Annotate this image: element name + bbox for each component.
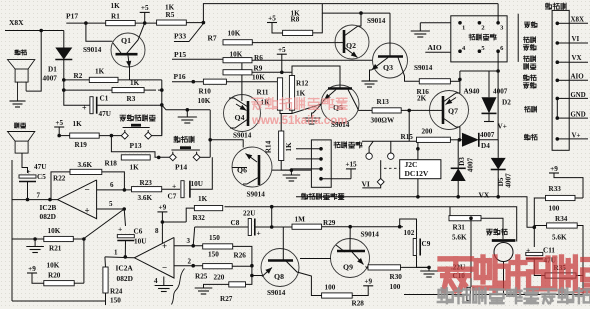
wire C8 left down to pin3	[193, 227, 195, 246]
svg-text:Q8: Q8	[274, 272, 284, 281]
wire R1 to +5	[135, 22, 156, 24]
svg-text:5.6K: 5.6K	[452, 234, 467, 242]
svg-text:R2: R2	[74, 72, 83, 80]
wire C10 column	[470, 218, 472, 287]
svg-text:R31: R31	[453, 224, 466, 232]
svg-text:S9014: S9014	[367, 17, 386, 25]
power +5 above R9	[281, 54, 283, 72]
svg-text:www.51kaifa.com: www.51kaifa.com	[251, 115, 347, 127]
wire R19 junction down	[111, 136, 169, 158]
svg-text:R26: R26	[234, 252, 247, 260]
svg-text:C8: C8	[231, 219, 240, 227]
svg-text:4007: 4007	[505, 173, 513, 188]
resistor R33	[546, 195, 576, 200]
resistor R32	[194, 206, 222, 211]
svg-text:10U: 10U	[134, 238, 147, 246]
IC2A pin2 wire	[174, 265, 203, 267]
squiggle adjust mark	[172, 269, 185, 305]
svg-text:10U: 10U	[191, 180, 204, 188]
resistor R29 1M	[292, 224, 322, 229]
op-amp IC2B 082D	[58, 180, 97, 219]
switch pin 1	[458, 21, 462, 25]
wire pin5 diagonal to R20 net	[84, 209, 124, 239]
wire C7 right up	[190, 157, 212, 189]
wire mic to C5	[22, 153, 28, 173]
wire top bus drop to Q3 collector	[322, 12, 390, 14]
switch pin 4	[458, 49, 462, 53]
svg-text:R21: R21	[49, 245, 62, 253]
svg-text:D4: D4	[481, 142, 490, 150]
connector pin AIO	[556, 79, 560, 83]
svg-text:C5: C5	[37, 173, 46, 181]
connector pin V+	[556, 137, 560, 141]
label shipin xinhao	[524, 37, 530, 43]
svg-text:R22: R22	[53, 175, 66, 183]
svg-text:1K: 1K	[130, 79, 140, 87]
diode D2	[488, 71, 490, 97]
wire R9 right to +5 node	[252, 71, 292, 73]
resistor R11 vertical	[277, 78, 282, 110]
svg-text:10K: 10K	[48, 227, 61, 235]
wire Q9 emitter to R30	[367, 267, 369, 268]
svg-text:6: 6	[110, 181, 114, 189]
svg-text:+: +	[162, 241, 167, 251]
wire base Q8	[252, 275, 263, 277]
transistor Q1 S9014	[111, 33, 145, 67]
switch pin 5	[478, 49, 482, 53]
wire R30 right	[401, 266, 430, 268]
svg-text:3.6K: 3.6K	[78, 161, 93, 169]
svg-text:VI: VI	[362, 180, 370, 189]
svg-text:082D: 082D	[117, 274, 133, 283]
power +5 at R19	[54, 126, 64, 128]
svg-text:R32: R32	[193, 214, 206, 222]
op-amp IC2A 082D	[134, 237, 174, 278]
svg-text:D3: D3	[458, 157, 466, 166]
wire linking GND pins	[556, 98, 558, 118]
wire P15	[172, 58, 242, 60]
svg-text:X8X: X8X	[571, 16, 585, 24]
svg-text:+9: +9	[550, 165, 558, 173]
ground below Q3 emitter	[362, 80, 378, 82]
svg-text:R20: R20	[48, 272, 61, 280]
svg-text:X8X: X8X	[9, 18, 24, 27]
svg-text:1K: 1K	[95, 68, 105, 76]
IC2A pin4 ground	[163, 277, 165, 286]
resistor R31	[449, 216, 481, 221]
resistor R16	[419, 79, 450, 84]
svg-text:2: 2	[481, 25, 484, 32]
diode D1	[63, 31, 65, 49]
svg-text:Q3: Q3	[383, 63, 393, 72]
microphone MIC1 speaker symbol	[8, 132, 35, 142]
switch pin 2	[478, 21, 482, 25]
svg-text:10K: 10K	[228, 30, 241, 38]
bottom wire right section	[404, 294, 466, 296]
resistor R6 10K	[223, 58, 252, 63]
svg-text:4007: 4007	[493, 88, 508, 96]
svg-text:R18: R18	[105, 160, 118, 168]
svg-text:3: 3	[187, 237, 191, 245]
svg-text:S9014: S9014	[361, 231, 380, 239]
wire R10 right to R11 top	[226, 78, 280, 82]
wire R2 net	[64, 79, 90, 81]
resistor R8	[283, 30, 313, 35]
wire X8X horizontal	[5, 30, 64, 32]
wire R25 right	[232, 265, 252, 267]
wire P14 right to vertical	[200, 156, 210, 158]
wire R34 ends	[534, 225, 546, 227]
wire C11 bottom to R35	[534, 259, 545, 276]
wire R3 right dashed	[144, 89, 156, 91]
svg-text:P14: P14	[175, 163, 187, 172]
relay contact wire	[362, 140, 417, 142]
connector pin VX	[556, 60, 560, 64]
svg-text:R11: R11	[257, 89, 269, 97]
svg-text:C6: C6	[134, 228, 143, 236]
wire C1 right	[97, 104, 162, 106]
svg-text:S9014: S9014	[414, 64, 433, 72]
feedback switch box	[451, 16, 507, 62]
svg-text:A940: A940	[464, 88, 480, 96]
resistor R21	[44, 236, 74, 241]
connector pin VI	[556, 41, 560, 45]
svg-text:10K: 10K	[230, 51, 243, 59]
microphone MIC2 label	[487, 229, 493, 235]
wire switch pin3 to top bus	[497, 4, 499, 23]
wire R14 bottom	[281, 161, 291, 171]
svg-text:R24: R24	[110, 288, 123, 296]
svg-text:V+: V+	[498, 123, 507, 131]
svg-text:22U: 22U	[243, 210, 256, 218]
svg-text:+: +	[257, 229, 261, 238]
svg-text:1K: 1K	[111, 2, 121, 10]
resistor R3	[112, 88, 144, 93]
svg-text:R14: R14	[265, 140, 273, 153]
resistor R5	[157, 20, 187, 25]
svg-text:10K: 10K	[198, 97, 211, 105]
wire C8 right	[255, 226, 292, 228]
resistor R9 10K	[223, 70, 252, 75]
svg-text:300ΩW: 300ΩW	[371, 117, 396, 125]
IC2A pin3 wire	[174, 245, 203, 247]
wire +5 to R8	[272, 23, 283, 34]
wire R18 right junction	[157, 156, 161, 160]
IC2A output pin1 wire	[105, 256, 134, 259]
resistor R7 10K	[223, 40, 252, 45]
node V+ stub	[484, 121, 494, 123]
resistor R34	[547, 223, 578, 228]
wire +9 to pin8	[161, 222, 163, 243]
svg-text:8: 8	[155, 227, 159, 235]
wire R16 right	[450, 80, 460, 82]
svg-text:100: 100	[325, 284, 336, 292]
power +15	[346, 168, 356, 170]
resistor R25	[203, 264, 233, 269]
resistor R35	[545, 273, 576, 278]
relay contact B	[386, 152, 395, 161]
svg-text:4007: 4007	[467, 157, 475, 172]
switch pin 6	[496, 49, 500, 53]
switch pin 3	[496, 21, 500, 25]
svg-text:R8: R8	[291, 16, 300, 24]
diode D3	[457, 140, 459, 169]
svg-text:R27: R27	[220, 295, 233, 303]
transistor Q4 S9014	[224, 95, 261, 132]
svg-text:+5: +5	[55, 119, 63, 127]
connector pin GND2	[556, 116, 560, 120]
svg-text:47U: 47U	[99, 110, 112, 118]
svg-text:GND: GND	[571, 112, 586, 119]
svg-text:IC2B: IC2B	[40, 203, 57, 212]
wire R3 net left	[64, 80, 112, 90]
wire R13 junction down to relay wire	[408, 110, 410, 141]
wire P17	[66, 22, 105, 24]
svg-text:R1: R1	[111, 13, 120, 21]
svg-text:AIO: AIO	[571, 73, 585, 81]
microphone MIC2 electret	[492, 239, 516, 242]
svg-text:+9: +9	[159, 204, 167, 212]
wire P17 to Q1 base	[86, 23, 113, 41]
transistor Q3 S9014	[373, 43, 408, 78]
svg-text:100: 100	[390, 283, 401, 291]
resistor R1	[106, 21, 136, 26]
connector to host box	[552, 10, 569, 150]
pushbutton P13	[123, 127, 150, 129]
wire R12 top	[291, 72, 293, 75]
svg-text:4007: 4007	[480, 131, 495, 139]
label dixian	[525, 106, 531, 112]
resistor R28	[322, 293, 353, 298]
switch label fankui kaiguan	[469, 34, 475, 40]
svg-text:D2: D2	[502, 99, 511, 107]
svg-text:2K: 2K	[417, 95, 427, 103]
label xinhao	[525, 22, 530, 28]
wire R33 ends	[575, 197, 583, 199]
wire switch pin6 down	[497, 51, 499, 140]
resistor R23	[132, 187, 162, 192]
top bus wire	[203, 4, 498, 23]
power +9 at IC2A pin8	[157, 211, 167, 213]
svg-text:−: −	[85, 185, 90, 195]
power +9 right column	[549, 172, 559, 174]
svg-text:150: 150	[110, 297, 121, 305]
resistor R24 vertical	[103, 267, 108, 293]
wire R26 R25 R27 right vertical	[233, 246, 252, 284]
svg-text:P15: P15	[174, 50, 186, 59]
svg-text:R25: R25	[195, 273, 208, 281]
svg-text:082D: 082D	[40, 212, 56, 221]
resistor R19	[70, 133, 100, 138]
wire R8 right to top bus	[313, 4, 323, 33]
junction on X8X wire	[39, 29, 43, 33]
video input label	[334, 142, 340, 148]
power +9 at R28	[363, 285, 373, 287]
label zhudong genzong jian	[120, 115, 126, 121]
svg-text:P17: P17	[66, 12, 78, 21]
wire mic bottom	[503, 262, 505, 295]
label yinpin xinhao	[523, 75, 529, 81]
svg-text:4007: 4007	[43, 75, 58, 83]
svg-text:S9014: S9014	[83, 46, 102, 54]
svg-text:C11: C11	[543, 247, 555, 255]
wire R2 right	[118, 79, 162, 81]
label jie shipin xianshiqi	[301, 193, 307, 199]
pushbutton P14	[171, 149, 200, 151]
resistor R10	[203, 79, 226, 84]
transistor Q8 S9014	[261, 249, 299, 287]
svg-text:150: 150	[209, 234, 220, 242]
op-amp IC2B pin7 wire	[12, 199, 58, 201]
speaker LS1 label	[15, 50, 20, 55]
wire pin6 net left	[460, 70, 498, 72]
svg-text:S9014: S9014	[267, 289, 286, 297]
svg-text:5.6K: 5.6K	[552, 234, 567, 242]
svg-text:100: 100	[549, 205, 560, 213]
svg-text:R23: R23	[140, 179, 153, 187]
capacitor C9 102	[400, 219, 417, 239]
relay pole VI	[380, 160, 382, 178]
capacitor C10 .22U	[467, 287, 470, 300]
bus wire 2	[225, 207, 517, 242]
wire Q4 Q6 link	[210, 140, 243, 148]
resistor R14 vertical	[279, 131, 284, 161]
wire R32 feed	[186, 208, 194, 222]
svg-text:+: +	[172, 182, 176, 191]
svg-text:R9: R9	[254, 65, 263, 73]
wire P33	[174, 24, 203, 42]
svg-text:D1: D1	[48, 66, 57, 74]
wire R7 to Q2 base	[252, 42, 335, 44]
svg-text:200: 200	[422, 128, 433, 136]
ground mid-left	[186, 110, 188, 117]
svg-text:1M: 1M	[295, 216, 306, 224]
wire R19 right	[99, 135, 121, 137]
svg-text:C1: C1	[100, 95, 109, 103]
svg-text:V+: V+	[572, 131, 581, 139]
svg-text:GND: GND	[571, 92, 586, 99]
wire R11 bottom to R14 top	[280, 114, 282, 132]
transistor Q7 A940	[430, 91, 469, 130]
svg-text:+: +	[85, 206, 90, 216]
svg-text:R28: R28	[352, 300, 365, 308]
svg-text:VX: VX	[572, 54, 582, 62]
video input pins	[319, 147, 323, 151]
svg-text:IC2A: IC2A	[116, 264, 134, 273]
ground at R21	[34, 239, 36, 247]
resistor R27	[229, 282, 246, 287]
left vertical rail	[11, 160, 13, 301]
svg-text:P16: P16	[174, 72, 186, 81]
capacitor C1 47U	[90, 97, 93, 114]
wire R15 right to diode node	[450, 139, 462, 141]
wire bus2 to R31	[449, 207, 451, 219]
svg-text:+5: +5	[268, 14, 276, 22]
wire R11 R12 bottoms to Q5 base	[280, 110, 292, 113]
connector header jie zhu ji	[545, 3, 551, 9]
ground top middle	[419, 23, 421, 31]
relay contact A	[365, 152, 374, 161]
wire +5 to R19	[59, 135, 69, 137]
resistor R26	[203, 244, 233, 249]
wire to speaker	[26, 31, 41, 92]
IC2B in- wire pin6	[97, 189, 132, 191]
resistor R20	[44, 281, 74, 286]
svg-text:Q6: Q6	[237, 166, 247, 175]
pink watermark 51kaifa	[252, 98, 263, 109]
svg-text:1: 1	[462, 25, 465, 32]
svg-text:+: +	[118, 225, 122, 234]
svg-text:3.6K: 3.6K	[138, 194, 153, 202]
svg-text:DC12V: DC12V	[405, 169, 429, 178]
svg-text:R15: R15	[401, 133, 414, 141]
relay dashed link	[384, 167, 400, 169]
speaker LS1	[25, 82, 27, 91]
resistor R18	[121, 155, 150, 160]
svg-text:+9: +9	[28, 265, 36, 273]
ground at Q6 net	[290, 170, 292, 175]
wire C5 bottom to op-amp	[27, 182, 29, 200]
svg-text:1: 1	[114, 249, 118, 257]
svg-text:2: 2	[188, 258, 192, 266]
wire P13 right to bus	[152, 105, 162, 136]
microphone MIC1 label	[15, 123, 19, 128]
resistor R2	[89, 77, 118, 82]
wire P16	[172, 81, 203, 83]
svg-text:+5: +5	[278, 46, 286, 54]
svg-text:S9014: S9014	[247, 191, 266, 199]
ground below Q5	[312, 113, 313, 118]
svg-text:VI: VI	[572, 35, 580, 43]
label dianyuan	[524, 134, 530, 140]
video input connector box	[311, 140, 331, 187]
wire R21 right vertical	[73, 238, 84, 240]
svg-text:C9: C9	[422, 240, 431, 248]
wire R5 to top bus	[186, 22, 203, 24]
svg-text:Q1: Q1	[121, 36, 131, 45]
svg-text:P33: P33	[174, 32, 186, 41]
svg-text:J2C: J2C	[405, 160, 418, 169]
svg-text:Q9: Q9	[343, 263, 353, 272]
svg-text:R19: R19	[75, 141, 88, 149]
transistor Q2 S9014	[335, 25, 369, 59]
resistor R13	[372, 108, 401, 113]
svg-text:AIO: AIO	[428, 43, 442, 52]
transistor Q5 S9014	[321, 85, 359, 123]
svg-text:4: 4	[154, 277, 158, 285]
svg-text:5: 5	[109, 200, 113, 208]
svg-text:Q4: Q4	[235, 113, 245, 122]
bottom rail	[12, 300, 106, 302]
wire P15 to Q4	[241, 59, 243, 94]
svg-text:1K: 1K	[296, 90, 306, 98]
resistor R30	[368, 265, 401, 270]
gray watermark slogan	[438, 288, 590, 303]
relay J2C box	[417, 141, 419, 197]
wire R21 left	[12, 238, 44, 240]
capacitor C8 22U	[195, 226, 248, 228]
svg-text:102: 102	[404, 229, 415, 237]
resistor R15	[417, 137, 451, 142]
power +5 at R1	[144, 12, 146, 23]
svg-text:R3: R3	[127, 95, 136, 103]
wire AIO to switch pin4	[425, 51, 451, 53]
svg-text:150: 150	[208, 251, 219, 259]
IC2B in+ wire pin5	[97, 208, 125, 210]
connector pin X8X	[556, 22, 560, 26]
resistor R12 vertical	[289, 76, 294, 111]
diode D5	[497, 140, 499, 158]
